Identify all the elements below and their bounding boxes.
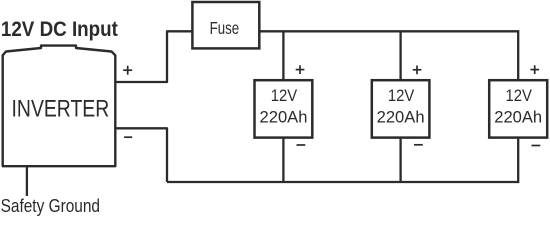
wire: drop from top bus to battery B3 +	[517, 30, 519, 80]
inverter - terminal label	[124, 136, 132, 138]
svg-text:12V DC Input: 12V DC Input	[1, 18, 118, 41]
battery B1	[255, 80, 313, 137]
battery B3 + label	[530, 65, 539, 74]
wire: inverter + to fuse	[115, 31, 192, 82]
wire: inverter chassis to safety ground	[26, 166, 28, 196]
svg-text:Safety Ground: Safety Ground	[1, 195, 100, 216]
wire: top positive bus from fuse to battery B3	[259, 30, 518, 32]
battery B2 - label	[414, 144, 423, 146]
battery B1 - label	[297, 144, 306, 146]
fuse F1	[192, 2, 259, 48]
wire: bottom negative bus	[167, 181, 518, 183]
svg-text:12V: 12V	[388, 87, 415, 105]
svg-text:220Ah: 220Ah	[494, 108, 542, 126]
wire: drop from top bus to battery B2 +	[399, 31, 401, 80]
wire: inverter - to bottom bus	[115, 128, 167, 182]
inverter U1	[3, 46, 116, 167]
svg-text:12V: 12V	[506, 87, 533, 105]
wire: battery B1 - to bottom bus	[282, 138, 284, 182]
inverter + terminal label	[123, 66, 132, 75]
svg-text:Fuse: Fuse	[210, 18, 240, 38]
wire: battery B3 - to bottom bus	[517, 138, 519, 184]
battery B1 + label	[296, 65, 305, 74]
battery B2 + label	[413, 66, 422, 75]
svg-text:INVERTER: INVERTER	[12, 95, 110, 122]
wire: drop from top bus to battery B1 +	[282, 31, 284, 80]
svg-text:12V: 12V	[271, 87, 298, 105]
battery B3 - label	[532, 145, 541, 147]
battery B3	[489, 80, 547, 137]
svg-text:220Ah: 220Ah	[377, 108, 425, 126]
svg-text:220Ah: 220Ah	[260, 108, 308, 126]
wire: battery B2 - to bottom bus	[399, 138, 401, 182]
battery B2	[372, 80, 430, 137]
